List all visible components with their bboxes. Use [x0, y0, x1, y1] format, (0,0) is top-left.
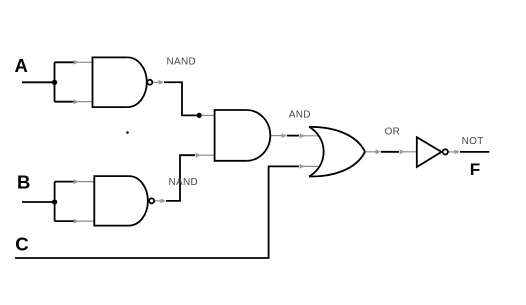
svg-text:NOT: NOT: [462, 136, 484, 147]
svg-text:AND: AND: [289, 109, 311, 120]
svg-text:OR: OR: [385, 127, 401, 138]
svg-text:A: A: [15, 55, 28, 76]
svg-text:C: C: [15, 234, 28, 255]
svg-text:F: F: [470, 160, 480, 179]
svg-text:NAND: NAND: [169, 177, 199, 188]
svg-text:NAND: NAND: [167, 57, 197, 68]
svg-text:B: B: [17, 172, 30, 193]
